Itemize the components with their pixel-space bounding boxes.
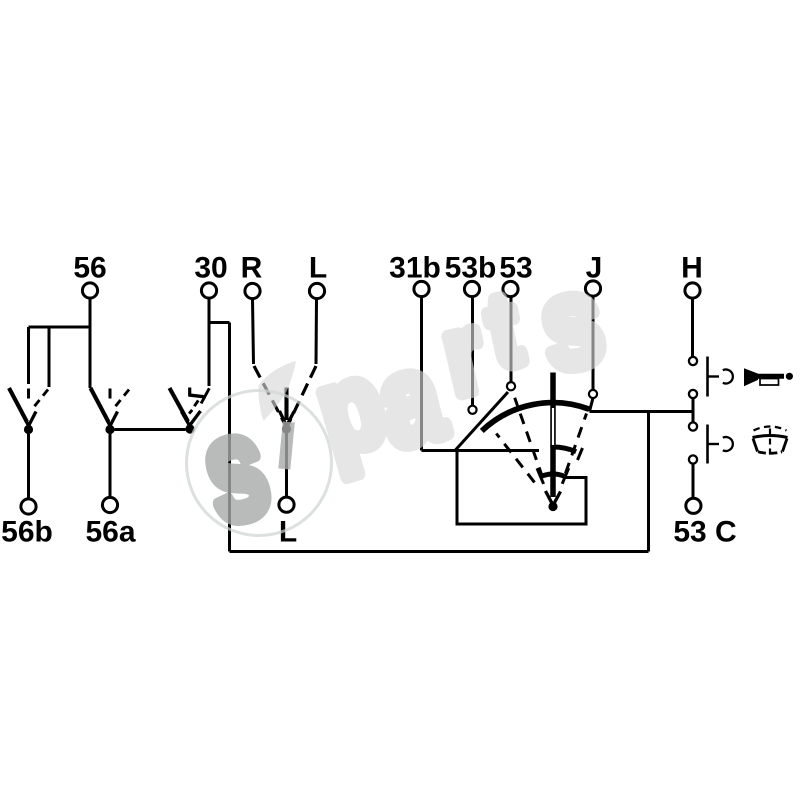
svg-text:31b: 31b	[389, 252, 441, 285]
svg-text:R: R	[241, 252, 263, 285]
svg-text:H: H	[681, 252, 703, 285]
svg-text:56: 56	[73, 252, 106, 285]
svg-text:L: L	[309, 252, 327, 285]
svg-text:56a: 56a	[85, 516, 135, 549]
svg-text:56b: 56b	[1, 516, 53, 549]
svg-text:53 C: 53 C	[673, 516, 736, 549]
svg-text:30: 30	[194, 252, 227, 285]
